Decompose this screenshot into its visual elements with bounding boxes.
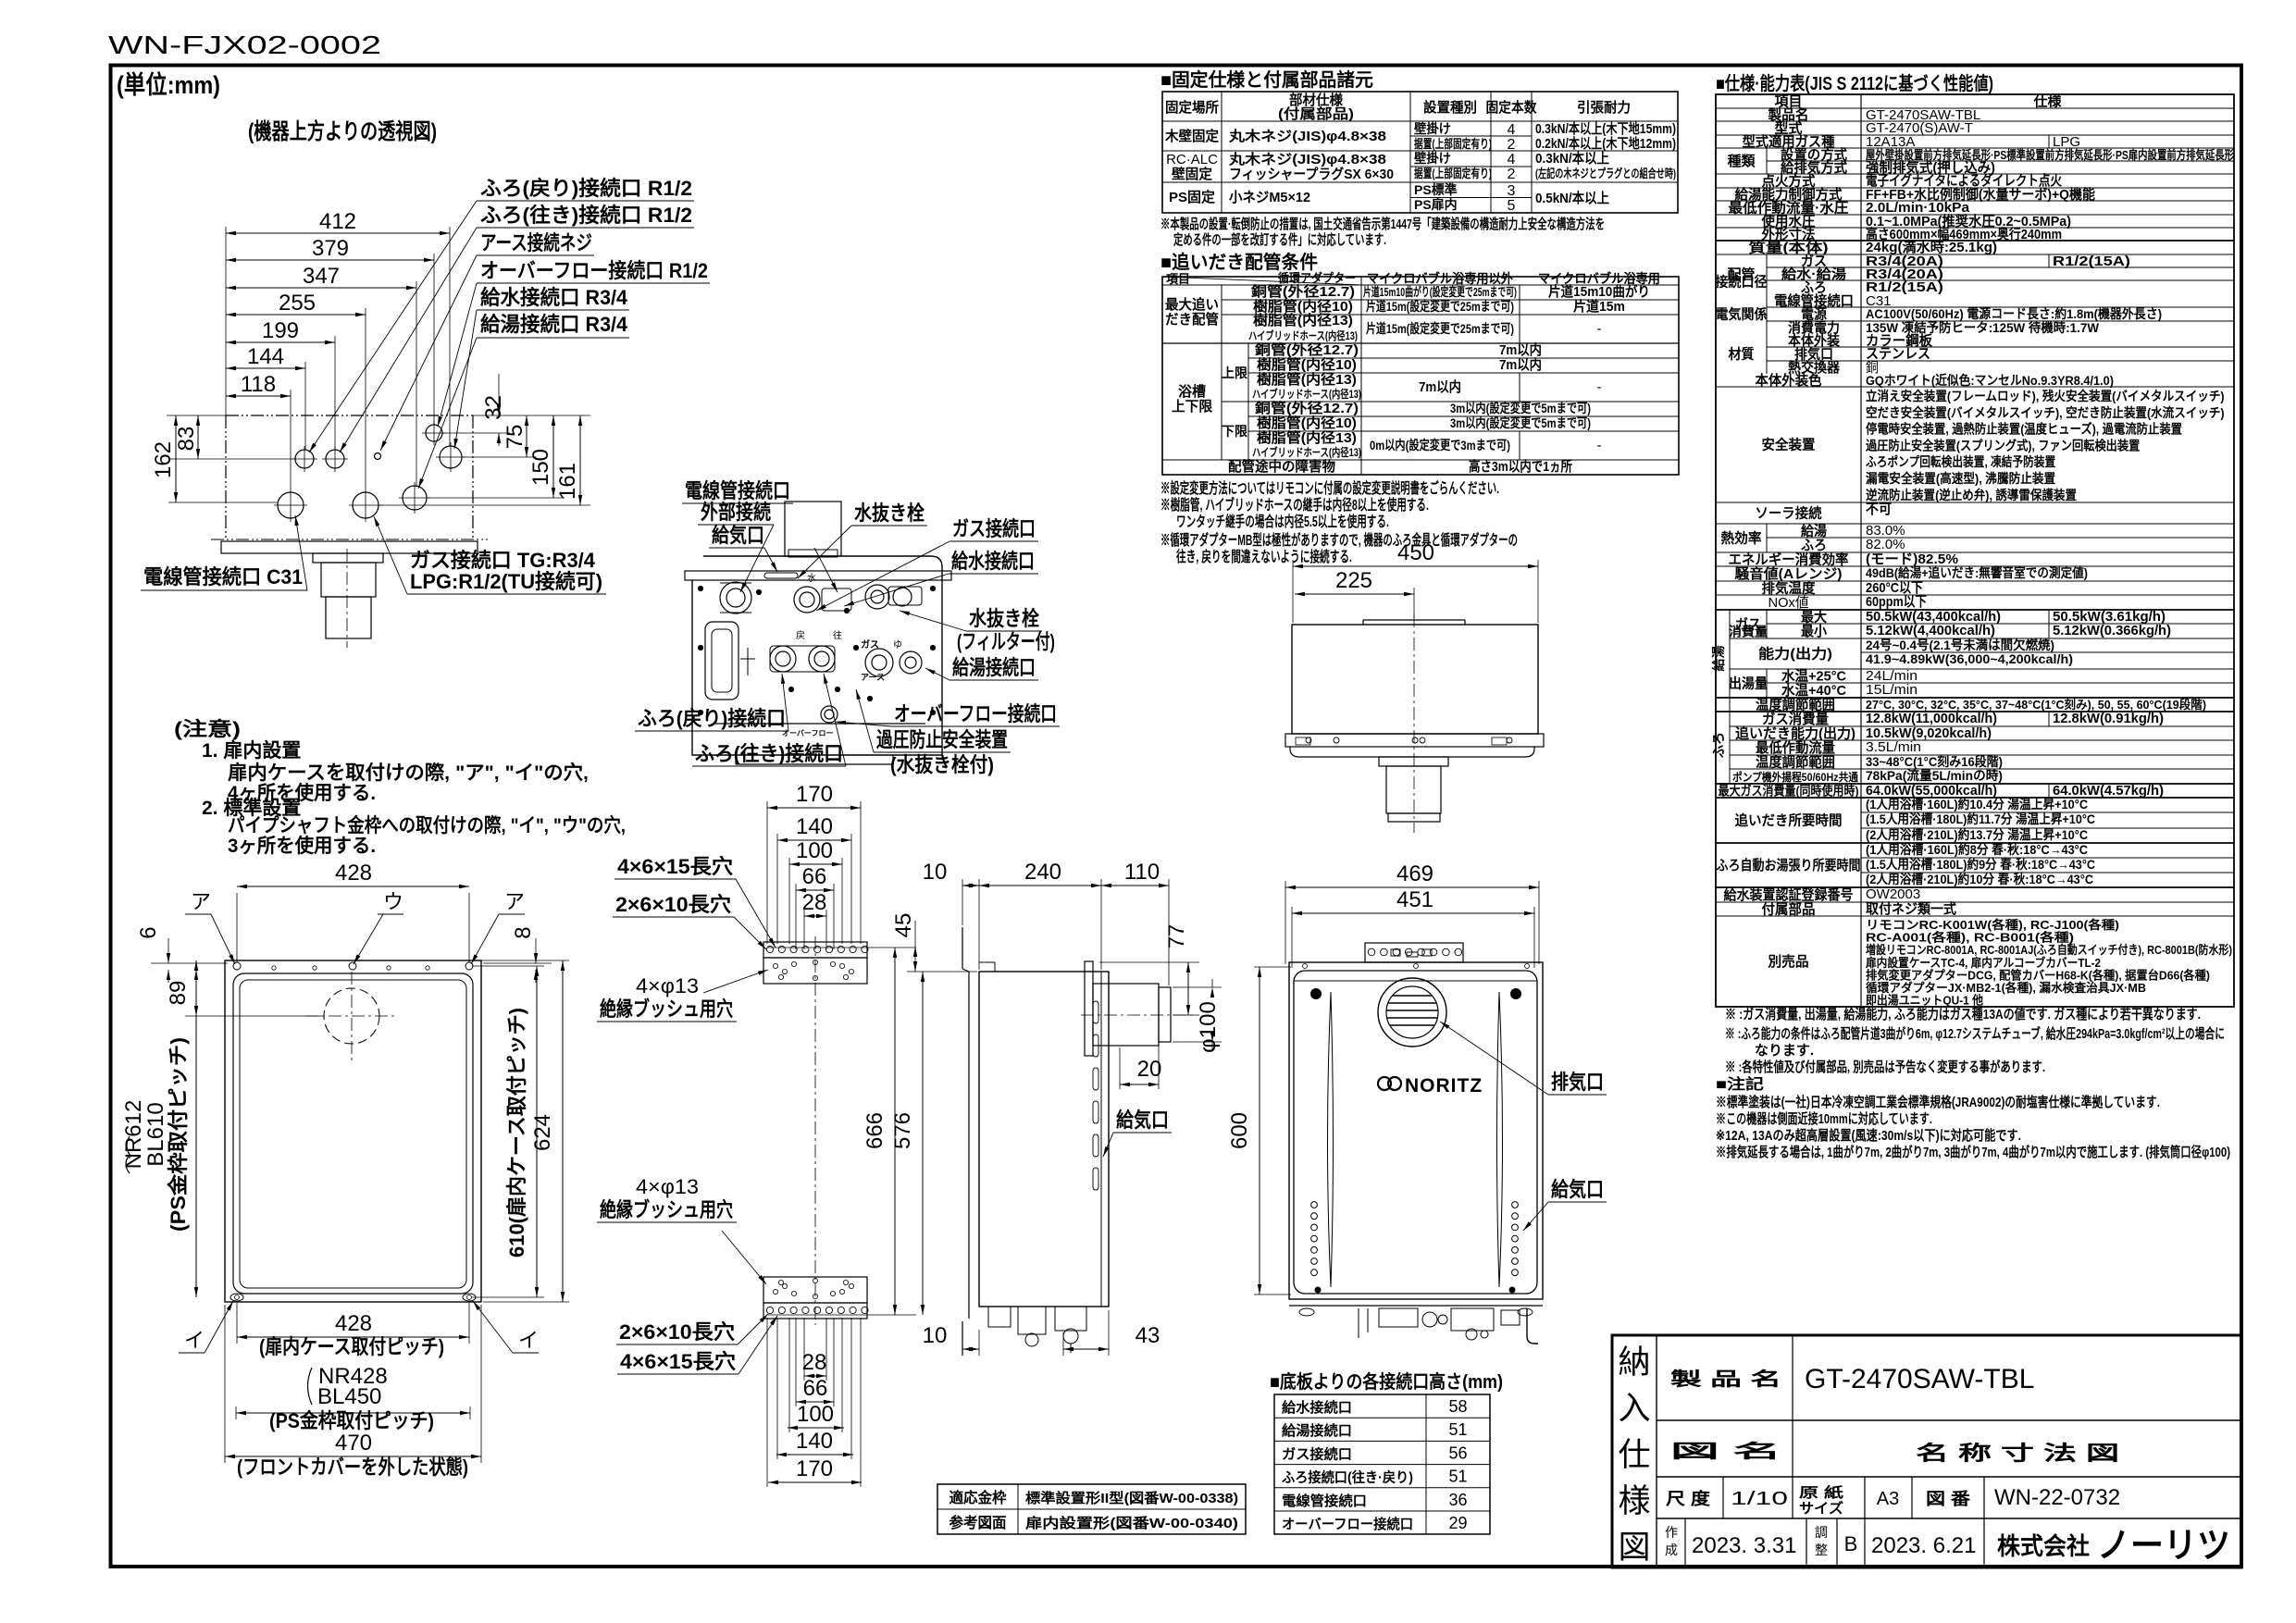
svg-text:29: 29	[1448, 1514, 1467, 1532]
spec table outer border	[1716, 94, 2234, 1007]
svg-text:(機器上方よりの透視図): (機器上方よりの透視図)	[248, 118, 437, 144]
internals view: bottom rail	[713, 723, 925, 725]
dimension 20	[1120, 1084, 1159, 1085]
front view right: vent holes right column	[1512, 1202, 1519, 1208]
svg-text:※標準塗装は(一社)日本冷凍空調工業会標準規格(JRA900: ※標準塗装は(一社)日本冷凍空調工業会標準規格(JRA9002)の耐塩害仕様に準…	[1716, 1094, 2160, 1110]
svg-text:(1.5人用浴槽·180L)約9分 春·秋:18°C→43°: (1.5人用浴槽·180L)約9分 春·秋:18°C→43°C	[1866, 857, 2095, 872]
svg-text:片道15m: 片道15m	[1573, 298, 1625, 315]
svg-text:1. 扉内設置: 1. 扉内設置	[202, 739, 301, 762]
svg-text:給湯接続口 R3/4: 給湯接続口 R3/4	[480, 313, 628, 336]
svg-text:給湯接続口: 給湯接続口	[952, 656, 1036, 679]
table oidaki diagonal header cell	[1162, 277, 1361, 285]
svg-text:原 紙: 原 紙	[1799, 1484, 1843, 1501]
dimension 451	[1292, 912, 1534, 914]
svg-text:納: 納	[1618, 1344, 1650, 1381]
top view: bottom centerline	[211, 539, 488, 540]
front view left: bottom mounting holes i	[230, 1294, 243, 1301]
svg-text:扉内設置形(図番W-00-0340): 扉内設置形(図番W-00-0340)	[1024, 1515, 1238, 1531]
svg-text:マイクロバブル浴専用以外: マイクロバブル浴専用以外	[1367, 271, 1513, 286]
svg-text:PS標準: PS標準	[1414, 182, 1458, 197]
front view left: outer rect	[225, 960, 481, 1302]
svg-text:255: 255	[279, 291, 316, 316]
svg-text:ゆ: ゆ	[893, 639, 902, 650]
svg-text:樹脂管(内径13): 樹脂管(内径13)	[1257, 429, 1357, 446]
svg-text:ノーリツ: ノーリツ	[2097, 1527, 2230, 1566]
svg-text:OW2003: OW2003	[1866, 886, 1920, 902]
svg-text:アース: アース	[861, 673, 885, 682]
svg-text:給気口: 給気口	[712, 524, 764, 547]
title block product name row	[1792, 1335, 1793, 1477]
svg-text:170: 170	[796, 1456, 833, 1481]
svg-text:2023. 3.31: 2023. 3.31	[1692, 1533, 1796, 1558]
svg-text:ガス: ガス	[861, 638, 879, 650]
svg-text:2: 2	[1508, 167, 1516, 182]
svg-text:12.8kW(0.91kg/h): 12.8kW(0.91kg/h)	[2053, 711, 2164, 726]
dimension 77	[1187, 962, 1189, 1015]
svg-text:様: 様	[1618, 1483, 1650, 1519]
svg-text:-: -	[1597, 379, 1602, 395]
svg-text:扉内ケースを取付けの際, "ア", "イ"の穴,: 扉内ケースを取付けの際, "ア", "イ"の穴,	[228, 762, 589, 784]
svg-text:ガス接続口 TG:R3/4: ガス接続口 TG:R3/4	[410, 549, 596, 572]
svg-text:0.3kN/本以上: 0.3kN/本以上	[1535, 150, 1609, 167]
svg-text:(扉内ケース取付ピッチ): (扉内ケース取付ピッチ)	[259, 1335, 444, 1358]
front view left: mounting hole u center	[349, 962, 356, 970]
svg-text:イ: イ	[518, 1329, 539, 1352]
svg-text:ソーラ接続: ソーラ接続	[1756, 505, 1822, 522]
dimension 89	[195, 970, 197, 1016]
svg-text:ガス接続口: ガス接続口	[952, 517, 1036, 540]
svg-text:240: 240	[1024, 860, 1061, 885]
front view right: top bracket	[1365, 943, 1463, 962]
svg-text:LPG:R1/2(TU接続可): LPG:R1/2(TU接続可)	[410, 570, 602, 593]
svg-text:7m以内: 7m以内	[1499, 356, 1542, 373]
svg-text:水温+25°C: 水温+25°C	[1781, 668, 1846, 685]
dimension 161 right	[579, 415, 581, 505]
svg-text:43: 43	[1136, 1323, 1160, 1348]
svg-text:追いだき能力(出力): 追いだき能力(出力)	[1735, 725, 1855, 742]
svg-text:428: 428	[335, 861, 372, 886]
svg-text:PS扉内: PS扉内	[1414, 197, 1458, 212]
svg-text:ふろ: ふろ	[1711, 732, 1726, 758]
front view right: bottom flange and fittings	[1289, 1305, 1543, 1307]
side view: exhaust flange	[1085, 961, 1093, 1056]
svg-text:電線管接続口 C31: 電線管接続口 C31	[143, 565, 303, 588]
dimension 118	[226, 395, 291, 397]
svg-text:丸木ネジ(JIS)φ4.8×38: 丸木ネジ(JIS)φ4.8×38	[1228, 151, 1386, 167]
svg-text:■追いだき配管条件: ■追いだき配管条件	[1160, 251, 1318, 273]
svg-text:GT-2470SAW-TBL: GT-2470SAW-TBL	[1805, 1364, 2034, 1394]
front view left: exhaust hole dashed circle	[324, 988, 379, 1044]
side view: body rect	[979, 972, 1109, 1307]
svg-text:木壁固定: 木壁固定	[1164, 128, 1219, 144]
spec table vertical label divider	[1860, 94, 1862, 1007]
svg-text:412: 412	[319, 209, 356, 234]
svg-text:銅管(外径12.7): 銅管(外径12.7)	[1255, 341, 1359, 358]
svg-text:水温+40°C: 水温+40°C	[1781, 682, 1846, 699]
svg-text:最大: 最大	[1801, 609, 1827, 626]
svg-text:消費量: 消費量	[1729, 625, 1768, 639]
dimension 225	[1295, 593, 1414, 595]
svg-text:ふろ(往き)接続口 R1/2: ふろ(往き)接続口 R1/2	[480, 204, 692, 227]
svg-text:成: 成	[1665, 1542, 1678, 1557]
svg-text:給水接続口: 給水接続口	[1282, 1399, 1352, 1416]
svg-text:株式会社: 株式会社	[1997, 1532, 2090, 1560]
svg-text:ア: ア	[191, 890, 211, 913]
svg-text:451: 451	[1396, 887, 1433, 912]
svg-text:最小: 最小	[1801, 623, 1827, 639]
svg-text:種類: 種類	[1728, 154, 1756, 169]
svg-text:給水装置認証登録番号: 給水装置認証登録番号	[1724, 886, 1854, 903]
svg-text:8: 8	[511, 926, 536, 938]
svg-text:水抜き栓: 水抜き栓	[969, 607, 1039, 630]
svg-text:能力(出力): 能力(出力)	[1758, 646, 1832, 663]
dimension 170 bottom	[768, 1481, 862, 1483]
svg-text:4: 4	[1508, 122, 1516, 138]
dimension 100 top	[789, 863, 842, 865]
svg-text:1/10: 1/10	[1731, 1489, 1788, 1509]
svg-text:給水接続口 R3/4: 給水接続口 R3/4	[480, 286, 628, 309]
front view right: NORITZ logo	[1378, 1077, 1391, 1090]
svg-text:作: 作	[1665, 1525, 1678, 1540]
svg-text:NR612: NR612	[121, 1100, 146, 1170]
svg-text:水抜き栓: 水抜き栓	[854, 502, 925, 525]
svg-text:φ100: φ100	[1196, 1001, 1221, 1053]
svg-text:整: 整	[1815, 1542, 1828, 1557]
dimension 75 right	[526, 415, 527, 457]
svg-text:3: 3	[1508, 183, 1516, 199]
svg-text:調: 調	[1815, 1525, 1828, 1540]
svg-text:(PS金枠取付ピッチ): (PS金枠取付ピッチ)	[167, 1037, 190, 1232]
dimension 28 bottom	[804, 1375, 826, 1377]
svg-text:※12A, 13Aのみ超高層設置(風速:30m/s以下)に対: ※12A, 13Aのみ超高層設置(風速:30m/s以下)に対応可能です.	[1716, 1127, 2021, 1144]
svg-text:469: 469	[1396, 861, 1433, 886]
svg-text:610(扉内ケース取付ピッチ): 610(扉内ケース取付ピッチ)	[505, 1008, 528, 1258]
svg-text:(2人用浴槽·210L)約10分 春·秋:18°C→43°C: (2人用浴槽·210L)約10分 春·秋:18°C→43°C	[1866, 872, 2093, 886]
front view left: mounting hole a right	[465, 962, 473, 970]
svg-text:56: 56	[1448, 1443, 1467, 1462]
svg-text:騒音値(Aレンジ): 騒音値(Aレンジ)	[1735, 565, 1843, 582]
svg-text:10: 10	[923, 1323, 948, 1348]
svg-text:118: 118	[241, 372, 276, 397]
svg-text:別売品: 別売品	[1768, 953, 1809, 970]
svg-text:5.12kW(4,400kcal/h): 5.12kW(4,400kcal/h)	[1866, 623, 1995, 638]
dimension 347	[226, 287, 416, 289]
dimension NR612 BL610 PS pitch	[195, 960, 197, 1297]
svg-text:83: 83	[174, 427, 199, 452]
svg-text:安全装置: 安全装置	[1762, 437, 1816, 453]
internals view: top flange	[685, 571, 951, 580]
svg-text:6: 6	[136, 926, 161, 938]
front view right: corner screws	[1311, 989, 1322, 999]
svg-text:アース接続ネジ: アース接続ネジ	[480, 231, 592, 254]
dimension 428 bottom	[237, 1336, 469, 1338]
svg-text:定める件の一部を改訂する件」に対応しています.: 定める件の一部を改訂する件」に対応しています.	[1173, 231, 1386, 248]
svg-text:片道15m10曲がり: 片道15m10曲がり	[1548, 283, 1650, 300]
svg-text:熱効率: 熱効率	[1721, 530, 1762, 547]
svg-text:壁固定: 壁固定	[1172, 166, 1212, 182]
dimension 469	[1285, 886, 1539, 888]
svg-text:3m以内(設定変更で5mまで可): 3m以内(設定変更で5mまで可)	[1450, 415, 1591, 430]
svg-text:高さ3m以内で1ヵ所: 高さ3m以内で1ヵ所	[1469, 458, 1572, 475]
svg-text:4×φ13: 4×φ13	[636, 1175, 699, 1198]
svg-text:ふろ自動お湯張り所要時間: ふろ自動お湯張り所要時間	[1717, 857, 1861, 873]
svg-text:28: 28	[802, 890, 827, 915]
svg-text:BL610: BL610	[143, 1102, 168, 1166]
dimension 666	[894, 948, 896, 1315]
svg-text:4×6×15長穴: 4×6×15長穴	[617, 855, 733, 878]
dimension 66 top	[796, 889, 834, 891]
front view left: inner case rounded rect	[233, 973, 473, 1294]
bracket top extension lines	[766, 801, 768, 944]
svg-text:浴槽: 浴槽	[1178, 383, 1206, 400]
svg-text:壁掛け: 壁掛け	[1414, 121, 1451, 136]
svg-text:75: 75	[503, 425, 527, 450]
svg-text:給気口: 給気口	[1551, 1178, 1604, 1201]
internals view: overflow fitting	[821, 706, 838, 723]
svg-text:NOx値: NOx値	[1769, 595, 1809, 611]
svg-text:給水接続口: 給水接続口	[951, 550, 1035, 573]
svg-text:600: 600	[1227, 1112, 1252, 1149]
svg-text:上限: 上限	[1222, 365, 1247, 380]
dimension 45	[914, 947, 916, 972]
svg-text:2023. 6.21: 2023. 6.21	[1871, 1533, 1976, 1558]
internals view: intake slot on flange	[764, 573, 798, 578]
svg-text:89: 89	[166, 981, 191, 1006]
bracket bottom extension lines	[803, 1318, 805, 1381]
svg-text:図: 図	[1618, 1530, 1650, 1566]
dimension 28 top	[804, 915, 826, 917]
svg-text:27°C, 30°C, 32°C, 35°C, 37~48°: 27°C, 30°C, 32°C, 35°C, 37~48°C(1°C刻み), …	[1866, 698, 2206, 712]
svg-text:33~48°C(1°C刻み16段階): 33~48°C(1°C刻み16段階)	[1866, 754, 2003, 769]
svg-text:428: 428	[335, 1311, 372, 1336]
svg-text:3ヶ所を使用する.: 3ヶ所を使用する.	[228, 835, 376, 857]
svg-text:据置(上部固定有り): 据置(上部固定有り)	[1414, 137, 1492, 151]
svg-text:設置種別: 設置種別	[1423, 99, 1477, 116]
svg-text:片道15m(設定変更で25mまで可): 片道15m(設定変更で25mまで可)	[1366, 321, 1514, 336]
svg-text:140: 140	[796, 814, 833, 839]
svg-text:GQホワイト(近似色:マンセルNo.9.3YR8.4/1.0: GQホワイト(近似色:マンセルNo.9.3YR8.4/1.0)	[1866, 373, 2114, 388]
spec table nested vertical lines	[1766, 148, 1768, 174]
svg-text:給湯: 給湯	[1801, 523, 1827, 539]
svg-text:ふろ(戻り)接続口 R1/2: ふろ(戻り)接続口 R1/2	[480, 177, 692, 200]
svg-text:(注意): (注意)	[174, 718, 241, 740]
svg-text:※排気延長する場合は, 1曲がり7m, 2曲がり7m, 3曲: ※排気延長する場合は, 1曲がり7m, 2曲がり7m, 3曲がり7m, 4曲がり…	[1716, 1144, 2230, 1160]
front view right: outer flange rect	[1289, 962, 1543, 1299]
svg-text:樹脂管(内径10): 樹脂管(内径10)	[1257, 356, 1357, 373]
svg-text:ア: ア	[504, 890, 525, 913]
svg-text:温度調節範囲: 温度調節範囲	[1756, 754, 1835, 771]
svg-text:162: 162	[151, 441, 176, 478]
svg-text:取付ネジ類一式: 取付ネジ類一式	[1866, 900, 1956, 917]
svg-text:※樹脂管, ハイブリッドホースの継手は内径8以上を使用する.: ※樹脂管, ハイブリッドホースの継手は内径8以上を使用する.	[1160, 496, 1429, 514]
svg-text:往き, 戻りを間違えないように接続する.: 往き, 戻りを間違えないように接続する.	[1176, 548, 1352, 565]
svg-text:項目: 項目	[1166, 272, 1190, 286]
svg-text:■仕様·能力表(JIS S 2112に基づく性能値): ■仕様·能力表(JIS S 2112に基づく性能値)	[1716, 72, 1993, 94]
table oidaki horizontal lines	[1162, 284, 1679, 286]
svg-text:(1人用浴槽·160L)約8分 春·秋:18°C→43°C: (1人用浴槽·160L)約8分 春·秋:18°C→43°C	[1866, 842, 2088, 857]
svg-text:立消え安全装置(フレームロッド), 残火安全装置(バイメタル: 立消え安全装置(フレームロッド), 残火安全装置(バイメタルスイッチ)	[1866, 389, 2225, 403]
svg-text:7m以内: 7m以内	[1499, 341, 1542, 358]
internals view: furo pair valves	[770, 646, 796, 672]
side view: louvre slots	[1093, 1001, 1098, 1023]
svg-text:戻: 戻	[796, 629, 805, 641]
svg-text:※循環アダプターMB型は極性がありますので, 機器のふろ金具: ※循環アダプターMB型は極性がありますので, 機器のふろ金具と循環アダプターの	[1160, 531, 1518, 549]
svg-text:銅管(外径12.7): 銅管(外径12.7)	[1251, 283, 1355, 300]
dimension 66 bottom	[796, 1401, 834, 1403]
svg-text:ウ: ウ	[383, 890, 403, 913]
table applicable frame	[937, 1484, 1246, 1534]
bracket top: lower plate holes	[773, 963, 777, 968]
svg-text:470: 470	[335, 1431, 372, 1456]
right top view: body	[1292, 625, 1538, 734]
svg-text:本体外装色: 本体外装色	[1756, 372, 1822, 389]
svg-text:4: 4	[1508, 152, 1516, 167]
svg-text:(1.5人用浴槽·180L)約11.7分 湯温上昇+10°C: (1.5人用浴槽·180L)約11.7分 湯温上昇+10°C	[1866, 811, 2095, 826]
extension lines for horizontal dimensions	[225, 227, 227, 415]
svg-text:イ: イ	[184, 1329, 205, 1352]
svg-text:仕様: 仕様	[2033, 93, 2063, 110]
svg-text:据置(上部固定有り): 据置(上部固定有り)	[1414, 167, 1492, 180]
svg-text:ポンプ機外揚程50/60Hz共通: ポンプ機外揚程50/60Hz共通	[1732, 770, 1858, 784]
top view: port circle furo-return A	[295, 450, 314, 468]
svg-text:4×φ13: 4×φ13	[636, 974, 699, 997]
title block date row	[1684, 1518, 1686, 1567]
top view: port circle furo-supply B	[326, 450, 344, 468]
internals view: gas valve assembly	[720, 582, 751, 613]
dimension 412	[226, 232, 450, 234]
svg-text:12.8kW(11,000kcal/h): 12.8kW(11,000kcal/h)	[1866, 711, 1997, 726]
svg-text:(左記の木ネジとプラグとの組合せ時): (左記の木ネジとプラグとの組合せ時)	[1535, 167, 1676, 180]
dimension 199	[226, 341, 335, 343]
dimension 470	[225, 1456, 481, 1457]
svg-text:ふろ(往き)接続口: ふろ(往き)接続口	[695, 742, 843, 765]
svg-text:110: 110	[1124, 860, 1160, 885]
right top view: small parts on flange	[1306, 737, 1311, 743]
svg-text:空だき安全装置(バイメタルスイッチ), 空だき防止装置(水流: 空だき安全装置(バイメタルスイッチ), 空だき防止装置(水流スイッチ)	[1866, 405, 2225, 420]
title block outer	[1612, 1335, 2241, 1567]
title block vertical title column	[1656, 1335, 1657, 1567]
internals view: hot water outlet valves	[865, 649, 893, 676]
svg-text:※本製品の設置·転倒防止の措置は, 国土交通省告示第1447: ※本製品の設置·転倒防止の措置は, 国土交通省告示第1447号「建築設備の構造耐…	[1160, 216, 1605, 232]
dimension 255	[226, 314, 366, 316]
svg-text:WN-22-0732: WN-22-0732	[1994, 1485, 2120, 1510]
svg-text:347: 347	[303, 264, 340, 289]
svg-text:576: 576	[890, 1112, 915, 1149]
svg-text:41.9~4.89kW(36,000~4,200kcal/h: 41.9~4.89kW(36,000~4,200kcal/h)	[1866, 651, 2073, 666]
svg-text:フィッシャープラグSX 6×30: フィッシャープラグSX 6×30	[1229, 166, 1394, 182]
dimension 610 right inner	[536, 966, 538, 1297]
title block scale row	[1722, 1477, 1724, 1518]
internals view: body outline	[692, 556, 942, 755]
svg-text:オーバーフロー接続口: オーバーフロー接続口	[894, 702, 1057, 725]
side view: pipe centerline	[1081, 1014, 1196, 1016]
svg-text:壁掛け: 壁掛け	[1414, 151, 1451, 166]
dimension 576	[922, 972, 924, 1315]
dimension 162 left	[175, 415, 177, 502]
svg-text:144: 144	[247, 344, 284, 369]
side view: exhaust pipe	[1093, 984, 1159, 1046]
svg-text:20: 20	[1137, 1057, 1162, 1082]
svg-text:R1/2(15A): R1/2(15A)	[2053, 254, 2130, 269]
svg-text:電気関係: 電気関係	[1716, 306, 1768, 323]
dimension 379	[226, 259, 434, 261]
svg-text:0.3kN/本以上(木下地15mm): 0.3kN/本以上(木下地15mm)	[1535, 120, 1676, 137]
svg-text:58: 58	[1448, 1397, 1467, 1416]
internals view: small screws	[698, 586, 702, 590]
svg-text:片道15m10曲がり(設定変更で25mまで可): 片道15m10曲がり(設定変更で25mまで可)	[1363, 285, 1517, 299]
svg-text:140: 140	[796, 1429, 833, 1454]
front view right: exhaust circle with louvres	[1378, 978, 1446, 1047]
dimension 624 right outer	[562, 960, 564, 1302]
dimension 600	[1259, 967, 1260, 1295]
svg-text:ガス接続口: ガス接続口	[1282, 1445, 1352, 1462]
top view: port circle water-in D	[440, 446, 462, 468]
svg-text:電線管接続口: 電線管接続口	[1282, 1493, 1367, 1509]
svg-text:出湯量: 出湯量	[1729, 675, 1768, 692]
svg-text:最低作動流量: 最低作動流量	[1756, 739, 1835, 756]
svg-text:温度調節範囲: 温度調節範囲	[1756, 697, 1835, 713]
svg-text:4×6×15長穴: 4×6×15長穴	[620, 1350, 736, 1373]
svg-text:外部接続: 外部接続	[701, 501, 771, 524]
svg-text:※ :ガス消費量, 出湯量, 給湯能力, ふろ能力はガス種: ※ :ガス消費量, 出湯量, 給湯能力, ふろ能力はガス種13Aの値です. ガス…	[1725, 1006, 2201, 1022]
right top view: center dashdot	[1413, 614, 1415, 833]
svg-text:199: 199	[262, 318, 299, 343]
dimension 144	[226, 367, 305, 369]
svg-text:36: 36	[1448, 1491, 1467, 1509]
svg-text:オーバーフロー: オーバーフロー	[782, 729, 833, 737]
svg-text:上下限: 上下限	[1172, 399, 1212, 415]
svg-text:10: 10	[923, 860, 948, 885]
svg-text:だき配管: だき配管	[1165, 311, 1219, 328]
svg-text:51: 51	[1448, 1420, 1467, 1439]
svg-text:サイズ: サイズ	[1799, 1500, 1843, 1517]
front view left: top small holes	[272, 966, 276, 970]
svg-text:樹脂管(内径13): 樹脂管(内径13)	[1257, 371, 1357, 388]
svg-text:2: 2	[1508, 137, 1516, 153]
svg-text:24号~0.4号(2.1号未満は間欠燃焼): 24号~0.4号(2.1号未満は間欠燃焼)	[1866, 638, 2054, 652]
svg-text:45: 45	[891, 913, 916, 938]
svg-text:■底板よりの各接続口高さ(mm): ■底板よりの各接続口高さ(mm)	[1270, 1370, 1503, 1393]
svg-text:■固定仕様と付属部品諸元: ■固定仕様と付属部品諸元	[1160, 68, 1373, 91]
svg-text:絶縁ブッシュ用穴: 絶縁ブッシュ用穴	[600, 997, 733, 1021]
svg-text:32: 32	[481, 395, 506, 420]
svg-text:※ :各特性値及び付属部品, 別売品は予告なく変更する事が: ※ :各特性値及び付属部品, 別売品は予告なく変更する事があります.	[1725, 1059, 2045, 1075]
svg-text:A3: A3	[1877, 1489, 1899, 1509]
top view: exhaust duct	[313, 553, 383, 563]
table oidaki outer border	[1162, 277, 1679, 475]
svg-text:15L/min: 15L/min	[1866, 682, 1917, 698]
dimension 428 top	[237, 886, 469, 887]
svg-text:給気口: 給気口	[1116, 1109, 1169, 1132]
svg-text:排気温度: 排気温度	[1762, 580, 1817, 597]
front view right: vent holes left column	[1311, 1202, 1318, 1208]
svg-text:170: 170	[796, 782, 833, 807]
svg-text:往: 往	[833, 629, 842, 641]
svg-text:排気口: 排気口	[1551, 1071, 1604, 1094]
svg-text:樹脂管(内径13): 樹脂管(内径13)	[1253, 312, 1353, 328]
svg-text:漏電安全装置(高速型), 沸騰防止装置: 漏電安全装置(高速型), 沸騰防止装置	[1866, 471, 2055, 486]
title block row lines	[1657, 1419, 2241, 1421]
svg-text:WN-FJX02-0002: WN-FJX02-0002	[108, 31, 381, 59]
spec table horizontal lines	[1716, 107, 2234, 109]
svg-text:7m以内: 7m以内	[1419, 378, 1461, 395]
top view: port circle hot-water E	[403, 486, 427, 510]
svg-text:ハイブリッドホース(内径13): ハイブリッドホース(内径13)	[1248, 328, 1358, 342]
svg-text:(PS金枠取付ピッチ): (PS金枠取付ピッチ)	[269, 1409, 434, 1432]
svg-text:オーバーフロー接続口: オーバーフロー接続口	[1282, 1516, 1413, 1532]
svg-text:過圧防止安全装置(スプリング式), ファン回転検出装置: 過圧防止安全装置(スプリング式), ファン回転検出装置	[1865, 438, 2140, 452]
right top view: flange strip	[1285, 734, 1544, 747]
